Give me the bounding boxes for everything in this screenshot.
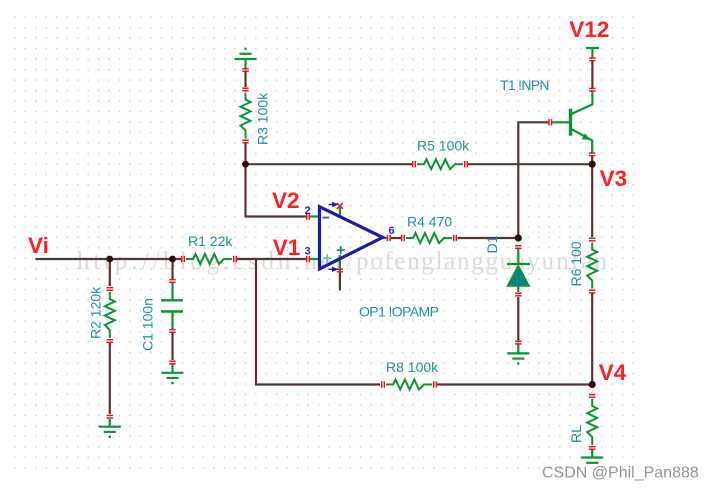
svg-text:V2: V2	[272, 188, 300, 213]
svg-text:http://blog.csdn.net/pofenglan: http://blog.csdn.net/pofenglangguayunfan	[77, 248, 608, 275]
svg-text:C1 100n: C1 100n	[140, 298, 156, 351]
svg-text:Vi: Vi	[28, 233, 49, 258]
svg-text:V3: V3	[600, 166, 628, 191]
svg-text:T1 !NPN: T1 !NPN	[500, 77, 549, 93]
svg-text:R2 120k: R2 120k	[88, 286, 104, 339]
svg-text:D1: D1	[484, 235, 500, 253]
svg-text:R6 100: R6 100	[568, 241, 584, 286]
svg-text:R5 100k: R5 100k	[417, 138, 470, 154]
svg-text:R3 100k: R3 100k	[255, 92, 271, 145]
svg-text:3: 3	[305, 246, 311, 258]
svg-text:RL: RL	[568, 425, 584, 443]
svg-text:6: 6	[389, 225, 395, 237]
svg-text:2: 2	[305, 205, 311, 217]
svg-text:CSDN @Phil_Pan888: CSDN @Phil_Pan888	[542, 465, 699, 482]
svg-text:R8 100k: R8 100k	[386, 359, 439, 375]
svg-text:V12: V12	[569, 17, 609, 42]
svg-text:V4: V4	[599, 360, 627, 385]
svg-text:R1 22k: R1 22k	[188, 233, 233, 249]
svg-text:OP1 !OPAMP: OP1 !OPAMP	[359, 304, 439, 320]
svg-text:R4 470: R4 470	[407, 214, 452, 230]
svg-text:V1: V1	[273, 235, 301, 260]
